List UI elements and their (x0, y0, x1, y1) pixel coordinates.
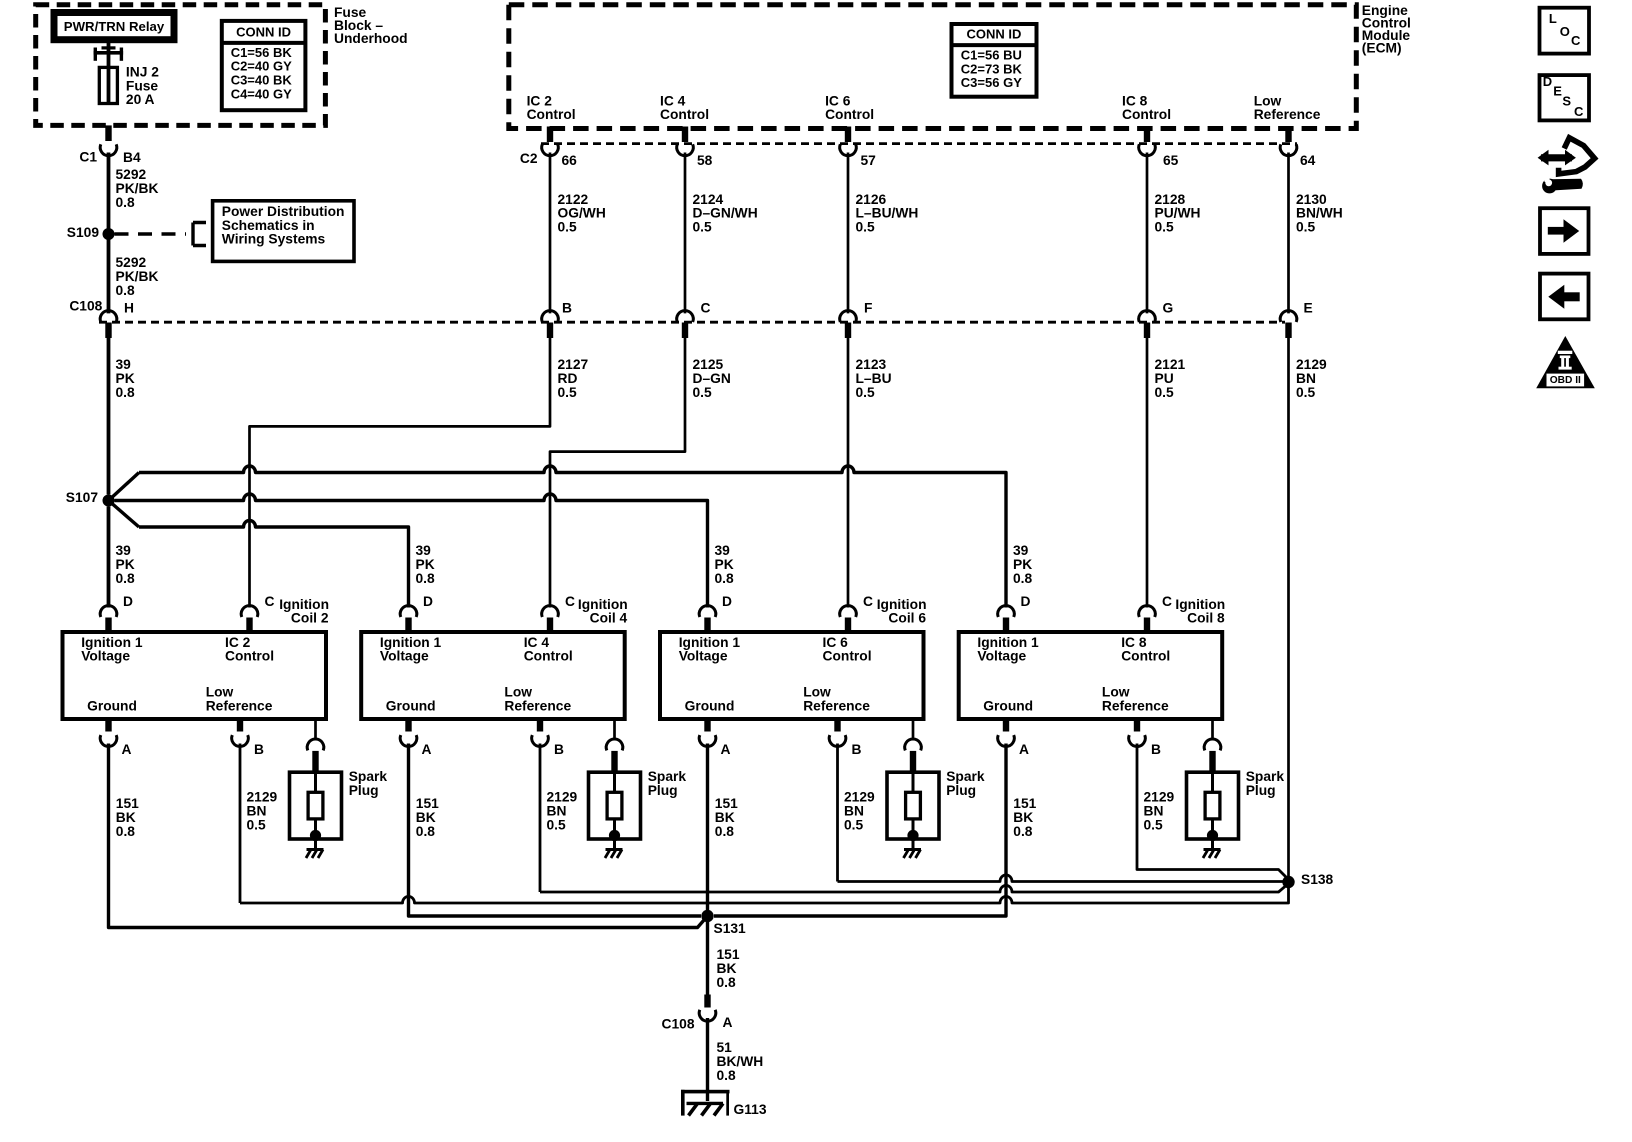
connector C108 pin F (840, 311, 857, 322)
spark plug 4 ground (1211, 839, 1214, 850)
svg-text:Plug: Plug (648, 783, 678, 798)
fuse F1 INJ 2 Fuse 20 A (99, 67, 117, 103)
svg-text:PK: PK (116, 557, 135, 572)
wire coil3 pinA through S131 (151 BK) (706, 744, 709, 995)
splice S109 (103, 228, 115, 240)
spark plug 3 connector (905, 739, 922, 750)
connector C108 pin A (704, 995, 710, 1008)
svg-text:64: 64 (1300, 153, 1316, 168)
wire coil1 pinB to S138 (2129 BN) (239, 744, 242, 904)
svg-text:0.5: 0.5 (247, 818, 267, 833)
svg-text:0.5: 0.5 (558, 385, 578, 400)
wire coil1 pinA to S131 (151 BK) (109, 744, 708, 928)
wire coil 4 to spark plug (613, 719, 616, 740)
connector C108 pin G (1139, 311, 1156, 322)
svg-text:D: D (722, 594, 732, 609)
svg-text:BN: BN (547, 804, 567, 819)
svg-text:O: O (1560, 24, 1570, 39)
svg-text:Plug: Plug (1246, 783, 1276, 798)
wire coil 6 to spark plug (912, 719, 915, 740)
svg-text:C108: C108 (662, 1017, 695, 1032)
connector line C2 (ECM) (541, 142, 1297, 145)
coil 4 pin D connector (400, 606, 417, 617)
svg-text:CONN ID: CONN ID (236, 25, 291, 40)
svg-text:C: C (1162, 594, 1172, 609)
svg-text:Low: Low (1254, 93, 1282, 108)
coil 6 pin B connector (834, 719, 840, 732)
svg-text:Control: Control (660, 107, 709, 122)
spark plug 4 connector (1204, 739, 1221, 750)
svg-text:F: F (864, 300, 872, 315)
spark plug 2 (589, 772, 641, 839)
coil 6 pin A connector (704, 719, 710, 732)
svg-text:0.8: 0.8 (1013, 824, 1033, 839)
svg-text:0.5: 0.5 (856, 385, 876, 400)
svg-text:PU: PU (1155, 371, 1174, 386)
wire relay to fuse (107, 43, 111, 68)
svg-text:D: D (123, 594, 133, 609)
svg-text:Coil 6: Coil 6 (888, 611, 926, 626)
svg-text:E: E (1304, 300, 1313, 315)
svg-text:C1: C1 (79, 150, 97, 165)
svg-text:Reference: Reference (1254, 107, 1321, 122)
wire 2128 PU/WH (1146, 153, 1149, 314)
wire 2127 RD run (250, 338, 551, 608)
connector C2 pin 66 (547, 127, 553, 143)
svg-text:0.5: 0.5 (844, 818, 864, 833)
svg-text:0.5: 0.5 (1155, 220, 1175, 235)
svg-text:2126: 2126 (856, 192, 887, 207)
svg-text:C: C (863, 594, 873, 609)
svg-text:0.5: 0.5 (693, 385, 713, 400)
wire 2129 BN run (1287, 338, 1290, 876)
conn-id table (ECM) (952, 24, 1037, 97)
wire coil4 pinB to S138 (2129 BN) (1137, 744, 1289, 880)
coil 8 pin A connector (1003, 719, 1009, 732)
conn-id table (fuse block) (222, 21, 306, 110)
svg-text:B: B (562, 300, 572, 315)
svg-text:0.8: 0.8 (1013, 571, 1033, 586)
spark plug 1 (290, 772, 342, 839)
svg-text:39: 39 (715, 543, 731, 558)
icon service wrench with arrows (1541, 154, 1572, 161)
wire 2123 L-BU run (847, 338, 850, 608)
coil 8 pin C connector (1139, 606, 1156, 617)
svg-text:Spark: Spark (349, 769, 388, 784)
svg-text:0.8: 0.8 (717, 1068, 737, 1083)
svg-text:IC 2: IC 2 (527, 93, 553, 108)
wire 2121 PU run (1146, 338, 1149, 608)
svg-text:A: A (122, 742, 132, 757)
svg-text:IC 8: IC 8 (1122, 93, 1148, 108)
coil 6 pin C connector (840, 606, 857, 617)
svg-text:C: C (565, 594, 575, 609)
svg-text:Low: Low (803, 685, 831, 700)
svg-text:Fuse: Fuse (126, 78, 159, 93)
spark plug 3 ground (912, 839, 915, 850)
relay K1 PWR/TRN Relay box (54, 13, 174, 40)
svg-text:D: D (1021, 594, 1031, 609)
svg-text:PK: PK (416, 557, 435, 572)
spark plug 4 (1187, 772, 1239, 839)
svg-text:Control: Control (823, 649, 872, 664)
svg-text:0.5: 0.5 (693, 220, 713, 235)
svg-text:BK: BK (715, 810, 735, 825)
coil 4 pin B connector (537, 719, 543, 732)
svg-text:BN: BN (1296, 371, 1316, 386)
svg-text:5292: 5292 (116, 255, 147, 270)
svg-text:L–BU: L–BU (856, 371, 892, 386)
svg-text:151: 151 (715, 796, 738, 811)
wire coil 2 to spark plug (314, 719, 317, 740)
svg-text:OBD II: OBD II (1550, 375, 1581, 386)
svg-text:2129: 2129 (547, 790, 578, 805)
svg-text:Control: Control (527, 107, 576, 122)
svg-text:Control: Control (1121, 649, 1170, 664)
coil 6 pin D connector (699, 606, 716, 617)
svg-text:C1=56 BK: C1=56 BK (231, 45, 293, 60)
svg-text:C: C (1574, 104, 1584, 119)
coil 8 pin B connector (1134, 719, 1140, 732)
svg-text:65: 65 (1163, 153, 1179, 168)
svg-text:S: S (1562, 94, 1571, 109)
svg-text:CONN ID: CONN ID (967, 27, 1022, 42)
svg-text:0.5: 0.5 (547, 818, 567, 833)
svg-text:OG/WH: OG/WH (558, 206, 606, 221)
svg-text:IC 6: IC 6 (825, 93, 851, 108)
svg-text:Low: Low (1102, 685, 1130, 700)
wire 39 PK (trunk) (107, 338, 111, 495)
coil 2 pin C connector (241, 606, 258, 617)
svg-text:0.8: 0.8 (116, 385, 136, 400)
coil 2 pin A connector (105, 719, 111, 732)
svg-text:C3=40 BK: C3=40 BK (231, 73, 293, 88)
coil 4 pin A connector (405, 719, 411, 732)
svg-text:S107: S107 (66, 490, 99, 505)
svg-text:Voltage: Voltage (977, 649, 1026, 664)
svg-text:Reference: Reference (206, 699, 273, 714)
connector C108 pin B (542, 311, 559, 322)
svg-text:A: A (721, 742, 731, 757)
svg-text:C4=40 GY: C4=40 GY (231, 86, 292, 101)
svg-text:C108: C108 (69, 299, 102, 314)
svg-text:0.8: 0.8 (116, 824, 136, 839)
svg-text:151: 151 (717, 947, 740, 962)
svg-text:BK/WH: BK/WH (717, 1054, 764, 1069)
svg-text:C2: C2 (520, 151, 538, 166)
icon OBD II triangle (1536, 336, 1595, 388)
svg-text:B: B (1151, 742, 1161, 757)
wire fan middle to coil 3 pin D (115, 494, 708, 608)
wire 2125 D-GN run (550, 338, 685, 608)
wire 2126 L&#8211;BU/WH (847, 153, 850, 314)
svg-text:IC 4: IC 4 (660, 93, 686, 108)
svg-text:0.8: 0.8 (715, 571, 735, 586)
spark plug 2 ground (613, 839, 616, 850)
connector C2 pin 57 (845, 127, 851, 143)
svg-text:39: 39 (416, 543, 432, 558)
svg-text:Ground: Ground (386, 699, 436, 714)
svg-text:51: 51 (717, 1040, 733, 1055)
svg-text:58: 58 (697, 153, 713, 168)
svg-text:2124: 2124 (693, 192, 724, 207)
svg-text:Voltage: Voltage (81, 649, 130, 664)
svg-text:S131: S131 (714, 921, 747, 936)
svg-text:G113: G113 (734, 1102, 767, 1117)
splice S138 (1282, 876, 1294, 888)
connector C2 pin 64 (1285, 127, 1291, 143)
svg-text:Coil 8: Coil 8 (1187, 611, 1225, 626)
svg-text:RD: RD (558, 371, 578, 386)
svg-text:Control: Control (1122, 107, 1171, 122)
svg-text:0.5: 0.5 (1296, 220, 1316, 235)
coil 8 pin D connector (998, 606, 1015, 617)
svg-text:0.8: 0.8 (717, 975, 737, 990)
icon LOC (1540, 8, 1590, 54)
svg-text:2121: 2121 (1155, 357, 1186, 372)
connector C108 pin H (100, 311, 117, 322)
svg-text:151: 151 (416, 796, 439, 811)
svg-text:Plug: Plug (946, 783, 976, 798)
wire fan upper to coil 4 pin D (139, 466, 1006, 608)
splice S131 (701, 910, 713, 922)
svg-text:PK/BK: PK/BK (116, 181, 159, 196)
svg-text:D: D (1543, 74, 1552, 89)
spark plug 2 connector (606, 739, 623, 750)
svg-text:2129: 2129 (1296, 357, 1327, 372)
svg-text:0.5: 0.5 (558, 220, 578, 235)
svg-text:BN/WH: BN/WH (1296, 206, 1343, 221)
svg-text:0.5: 0.5 (1155, 385, 1175, 400)
svg-text:2128: 2128 (1155, 192, 1186, 207)
svg-text:Low: Low (504, 685, 532, 700)
svg-text:PK: PK (116, 371, 135, 386)
svg-text:0.8: 0.8 (116, 571, 136, 586)
svg-text:BN: BN (844, 804, 864, 819)
svg-text:L: L (1549, 11, 1557, 26)
svg-text:A: A (1019, 742, 1029, 757)
svg-text:C3=56 GY: C3=56 GY (961, 75, 1022, 90)
wire coil2 pinA to S131 (151 BK) (409, 744, 702, 917)
wire trunk to coil 1 pin D (107, 507, 111, 608)
svg-text:S138: S138 (1301, 872, 1334, 887)
svg-text:0.8: 0.8 (416, 571, 436, 586)
svg-text:D–GN: D–GN (693, 371, 731, 386)
svg-text:PK/BK: PK/BK (116, 269, 159, 284)
svg-text:Spark: Spark (648, 769, 687, 784)
svg-text:PK: PK (715, 557, 734, 572)
wire coil4 pinA to S131 (151 BK) (714, 744, 1006, 917)
svg-text:Ground: Ground (685, 699, 735, 714)
wire 5292 PK/BK (upper) (107, 153, 111, 232)
svg-text:39: 39 (1013, 543, 1029, 558)
wire coil3 pinB to S138 (2129 BN) (836, 744, 839, 882)
svg-text:0.5: 0.5 (1144, 818, 1164, 833)
spark plug 1 ground (314, 839, 317, 850)
svg-text:57: 57 (861, 153, 877, 168)
svg-text:G: G (1163, 300, 1174, 315)
coil 4 pin C connector (542, 606, 559, 617)
svg-text:B: B (554, 742, 564, 757)
spark plug 3 (887, 772, 939, 839)
icon right arrow (1540, 208, 1589, 254)
connector C1 at fuse block (105, 125, 111, 141)
fuse block - underhood dashed box (36, 5, 326, 126)
svg-text:E: E (1553, 83, 1562, 98)
svg-text:Control: Control (524, 649, 573, 664)
svg-text:BK: BK (116, 810, 136, 825)
wire coil2 pinB to S138 (2129 BN) (539, 744, 542, 893)
icon DESC (1540, 75, 1590, 120)
wire 2130 BN/WH (1287, 153, 1290, 314)
svg-text:BK: BK (717, 961, 737, 976)
wire coil 8 to spark plug (1211, 719, 1214, 740)
icon left arrow (1540, 274, 1589, 320)
svg-text:5292: 5292 (116, 167, 147, 182)
svg-text:0.5: 0.5 (1296, 385, 1316, 400)
svg-text:B: B (852, 742, 862, 757)
spark plug 1 connector (307, 739, 324, 750)
svg-text:39: 39 (116, 357, 132, 372)
svg-text:Plug: Plug (349, 783, 379, 798)
note leader dashed (115, 232, 187, 235)
svg-text:INJ 2: INJ 2 (126, 64, 159, 79)
connector C108 pin C (677, 311, 694, 322)
wire 5292 PK/BK (lower) (107, 237, 111, 313)
svg-text:Voltage: Voltage (679, 649, 728, 664)
wire 2122 OG/WH (549, 153, 552, 314)
svg-text:Wiring Systems: Wiring Systems (222, 232, 326, 247)
ignition coil 8 box (959, 632, 1222, 719)
svg-text:Ground: Ground (983, 699, 1033, 714)
svg-text:Voltage: Voltage (380, 649, 429, 664)
svg-text:66: 66 (562, 153, 578, 168)
svg-text:Reference: Reference (1102, 699, 1169, 714)
svg-text:2122: 2122 (558, 192, 589, 207)
svg-text:BK: BK (1013, 810, 1033, 825)
wire 51 BK/WH (706, 1018, 709, 1101)
wire fan lower to coil 2 pin D (139, 520, 409, 607)
svg-text:39: 39 (116, 543, 132, 558)
svg-text:A: A (723, 1015, 733, 1030)
engine control module dashed box (509, 5, 1357, 129)
svg-text:0.8: 0.8 (116, 283, 136, 298)
svg-text:D: D (423, 594, 433, 609)
svg-text:151: 151 (116, 796, 139, 811)
connector C108 pin E (1280, 311, 1297, 322)
svg-text:B4: B4 (123, 150, 141, 165)
splice S107 (103, 495, 115, 507)
svg-text:151: 151 (1013, 796, 1036, 811)
svg-text:Control: Control (225, 649, 274, 664)
svg-text:A: A (422, 742, 432, 757)
svg-text:C: C (701, 300, 711, 315)
svg-text:Underhood: Underhood (334, 31, 408, 46)
svg-text:Low: Low (206, 685, 234, 700)
note box Power Distribution Schematics in Wiring Systems (213, 201, 354, 262)
svg-text:2127: 2127 (558, 357, 589, 372)
connector C2 pin 65 (1144, 127, 1150, 143)
svg-text:L–BU/WH: L–BU/WH (856, 206, 919, 221)
svg-text:0.5: 0.5 (856, 220, 876, 235)
connector C2 pin 58 (682, 127, 688, 143)
svg-text:2125: 2125 (693, 357, 724, 372)
svg-text:Ground: Ground (87, 699, 137, 714)
svg-text:C: C (1571, 33, 1581, 48)
svg-text:(ECM): (ECM) (1362, 40, 1402, 55)
svg-text:2130: 2130 (1296, 192, 1327, 207)
svg-text:BN: BN (247, 804, 267, 819)
wire 2124 D&#8211;GN/WH (684, 153, 687, 314)
svg-text:2129: 2129 (247, 790, 278, 805)
svg-text:20 A: 20 A (126, 92, 155, 107)
ignition coil 2 box (63, 632, 327, 719)
svg-text:Spark: Spark (946, 769, 985, 784)
svg-text:Reference: Reference (803, 699, 870, 714)
svg-text:C: C (265, 594, 275, 609)
svg-text:PU/WH: PU/WH (1155, 206, 1201, 221)
svg-text:2123: 2123 (856, 357, 887, 372)
svg-text:D–GN/WH: D–GN/WH (693, 206, 758, 221)
svg-text:B: B (254, 742, 264, 757)
svg-text:2129: 2129 (844, 790, 875, 805)
coil 2 pin D connector (100, 606, 117, 617)
svg-text:2129: 2129 (1144, 790, 1175, 805)
svg-text:BK: BK (416, 810, 436, 825)
svg-text:PWR/TRN Relay: PWR/TRN Relay (64, 19, 165, 34)
svg-text:0.8: 0.8 (116, 195, 136, 210)
svg-text:Coil 2: Coil 2 (291, 611, 329, 626)
ignition coil 4 box (361, 632, 625, 719)
ground G113 (681, 1090, 730, 1094)
svg-text:Spark: Spark (1246, 769, 1285, 784)
relay pin / fuse clip (102, 46, 116, 49)
svg-text:Control: Control (825, 107, 874, 122)
svg-text:0.8: 0.8 (715, 824, 735, 839)
svg-text:0.8: 0.8 (416, 824, 436, 839)
connector line C108 (99, 321, 1285, 324)
svg-text:Reference: Reference (504, 699, 571, 714)
ignition coil 6 box (660, 632, 924, 719)
svg-text:C2=40 GY: C2=40 GY (231, 59, 292, 74)
svg-text:S109: S109 (67, 225, 100, 240)
coil 2 pin B connector (237, 719, 243, 732)
svg-text:BN: BN (1144, 804, 1164, 819)
svg-text:H: H (124, 300, 134, 315)
svg-text:PK: PK (1013, 557, 1032, 572)
svg-text:Coil 4: Coil 4 (590, 611, 628, 626)
